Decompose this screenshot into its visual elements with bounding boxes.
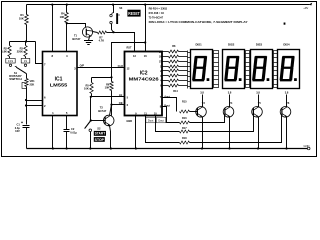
- svg-text:Dout: Dout: [158, 119, 164, 123]
- ground GND terminal: [304, 144, 310, 150]
- capacitor C1: [15, 121, 30, 133]
- node pin2 tap: [25, 104, 27, 106]
- wire T6 collector to display cathode: [286, 95, 288, 108]
- svg-text:STOP: STOP: [95, 138, 105, 142]
- wire left network top: [10, 41, 36, 43]
- wire R5 top to R6 line: [92, 77, 112, 79]
- svg-text:220K: 220K: [17, 50, 23, 54]
- node Vcc branch: [144, 41, 146, 43]
- wire pin10 to R17: [156, 116, 180, 132]
- svg-text:3,8: 3,8: [256, 91, 260, 95]
- wire T5 collector to display cathode: [258, 95, 260, 108]
- wire ground rail bottom: [27, 148, 308, 150]
- svg-text:MM74C926: MM74C926: [129, 76, 160, 81]
- node T3 emitter rail junction: [201, 147, 203, 149]
- wire S1 pole to VR1: [26, 74, 28, 79]
- svg-text:10K: 10K: [19, 17, 24, 21]
- wire pin9 to ground rail: [135, 116, 137, 149]
- wire IC1 pin8 to rail: [52, 5, 54, 52]
- svg-text:3.3µ: 3.3µ: [15, 126, 21, 130]
- wire R4 junction to T1 base: [67, 24, 86, 28]
- transistor T6: [280, 101, 291, 117]
- note component values text block: [149, 6, 248, 24]
- node R1 bottom: [25, 40, 27, 42]
- resistor R1: [19, 5, 28, 25]
- svg-text:10K: 10K: [105, 86, 110, 90]
- wire top +9V supply rail: [27, 4, 310, 6]
- transistor T4: [223, 101, 234, 117]
- resistor R17: [180, 127, 190, 133]
- node S2 rail junction: [89, 147, 91, 149]
- svg-text:10K: 10K: [60, 15, 65, 19]
- wire T1 collector to R7: [93, 32, 98, 33]
- transistor T2: [98, 106, 114, 126]
- label RESET: [127, 10, 140, 17]
- svg-text:R17: R17: [182, 127, 187, 130]
- wire T2 emitter to rail: [110, 126, 111, 149]
- svg-text:S2: S2: [97, 127, 101, 131]
- svg-text:R6: R6: [106, 82, 110, 86]
- svg-text:OE: OE: [119, 101, 123, 105]
- wire R7 to reset node: [107, 32, 114, 34]
- switch S3 reset pushbutton: [110, 5, 123, 33]
- display DIS3 LT543: [251, 50, 273, 89]
- wire to IC1 pin2: [27, 105, 43, 107]
- svg-text:O/P: O/P: [80, 64, 85, 68]
- ground T1 emitter: [84, 37, 93, 45]
- label START: [94, 131, 106, 136]
- wire to IC1 pin6: [27, 100, 43, 102]
- wire base feed T4: [190, 116, 225, 123]
- wire base feed T6: [190, 116, 282, 143]
- svg-text:T3-T6=BC547: T3-T6=BC547: [149, 15, 164, 19]
- transistor T1: [72, 27, 92, 41]
- wire IC1 pin3 O/P to IC2 CLK: [78, 67, 125, 69]
- svg-text:1.8K: 1.8K: [1, 50, 7, 54]
- svg-text:R2: R2: [4, 46, 8, 50]
- node R4 bottom junction: [66, 22, 68, 24]
- resistor R3: [17, 42, 28, 59]
- resistor R15: [180, 100, 190, 113]
- node pin1 rail junction: [52, 147, 54, 149]
- svg-text:R18: R18: [182, 137, 187, 140]
- wire R1 bottom to left network: [26, 25, 28, 42]
- svg-text:R4: R4: [61, 12, 65, 16]
- switch S2 start/stop: [85, 121, 101, 149]
- resistor R5: [84, 78, 93, 97]
- node pin6 tap: [25, 99, 27, 101]
- wire LE to IC2 pin5: [91, 96, 125, 98]
- wire T5 emitter to rail: [258, 117, 260, 149]
- wire base feed T5: [190, 116, 254, 132]
- wire OE to IC2 pin6: [112, 104, 125, 106]
- svg-text:RESET: RESET: [128, 11, 140, 16]
- power +9V terminal: [303, 3, 312, 10]
- wire segment bus strip 1: [214, 51, 219, 88]
- svg-text:CLK: CLK: [118, 64, 124, 68]
- display DIS1 LT543: [191, 50, 213, 89]
- label Dout right: [156, 117, 165, 122]
- svg-text:DIS3: DIS3: [256, 43, 263, 47]
- wire Aout to R15: [163, 98, 177, 112]
- svg-text:1S: 1S: [24, 59, 27, 63]
- resistor R16: [180, 117, 190, 124]
- switch S1 rotary: [9, 64, 26, 81]
- svg-text:+9V: +9V: [303, 6, 308, 10]
- svg-text:R1: R1: [20, 13, 24, 17]
- svg-text:VR1: VR1: [30, 79, 36, 83]
- svg-text:IC1: IC1: [55, 77, 63, 83]
- svg-text:BC547: BC547: [72, 37, 81, 41]
- wire segment bus strip 2: [246, 51, 250, 88]
- wire base link: [91, 120, 106, 122]
- node top rail junction dots: [51, 4, 53, 6]
- svg-text:LE: LE: [119, 93, 123, 97]
- wire T2 collector: [110, 105, 112, 116]
- svg-text:C2: C2: [71, 127, 75, 131]
- svg-text:3,8: 3,8: [200, 91, 204, 95]
- wire Vcc rail to IC2 pin16: [145, 5, 147, 52]
- svg-text:DIS1-DIS4 = LT543 COMMON-CATHO: DIS1-DIS4 = LT543 COMMON-CATHODE, 7-SEGM…: [149, 20, 248, 24]
- svg-text:3,8: 3,8: [285, 91, 289, 95]
- wire segment bus strip 3: [274, 51, 278, 88]
- resistor R7: [98, 31, 107, 43]
- svg-text:R5: R5: [85, 83, 89, 87]
- resistor R2: [1, 42, 11, 59]
- wire T3 emitter to rail: [202, 117, 204, 149]
- label range box 0.1S: [6, 58, 15, 63]
- svg-text:4.7K: 4.7K: [99, 39, 105, 43]
- node T5 emitter rail junction: [257, 147, 259, 149]
- svg-text:Dout: Dout: [148, 119, 154, 123]
- wire T4 collector to display cathode: [229, 95, 231, 108]
- node T4 emitter rail junction: [228, 147, 230, 149]
- svg-text:0.01µ: 0.01µ: [70, 130, 77, 134]
- node reset junction: [112, 31, 114, 33]
- IC counter IC2 MM74C926 box: [125, 52, 163, 116]
- svg-text:DIS1: DIS1: [195, 43, 202, 47]
- svg-text:R16: R16: [182, 117, 187, 120]
- wire reset node to IC2 pin13: [114, 33, 135, 52]
- mark print fleck: [284, 23, 286, 25]
- node pin9 rail junction: [135, 147, 137, 149]
- display DIS4 LT543: [278, 50, 300, 89]
- wire to IC1 pin7: [36, 42, 43, 64]
- resistor network R8-R14 segment lines: [159, 50, 188, 87]
- wire Bout to R16: [163, 107, 180, 123]
- svg-text:0.1S: 0.1S: [8, 59, 14, 63]
- svg-text:R8-R14 = 330Ω: R8-R14 = 330Ω: [149, 6, 168, 10]
- wire pin11 to R18: [146, 116, 180, 143]
- border frame: [2, 2, 317, 157]
- svg-text:BC547: BC547: [98, 109, 107, 113]
- wire T4 emitter to rail: [229, 117, 231, 149]
- svg-text:10K: 10K: [84, 87, 89, 91]
- svg-text:SWITCH: SWITCH: [9, 77, 22, 81]
- node T6 emitter rail junction: [285, 147, 287, 149]
- wire VR1 to C1: [26, 87, 28, 125]
- wire IC1 pin1 to rail: [52, 116, 54, 149]
- svg-text:R15-R18 = 1K: R15-R18 = 1K: [149, 11, 165, 15]
- resistor R4: [60, 5, 69, 24]
- svg-text:GND: GND: [126, 119, 132, 123]
- resistor R6: [105, 82, 114, 91]
- transistor T3: [196, 101, 207, 117]
- capacitor C2: [64, 116, 78, 149]
- svg-text:LM555: LM555: [50, 83, 68, 89]
- potentiometer VR1: [22, 79, 35, 89]
- node T2 base S2 junction: [90, 119, 92, 121]
- svg-text:RST: RST: [127, 47, 132, 50]
- svg-text:3,8: 3,8: [228, 91, 232, 95]
- node OE tap: [110, 104, 112, 106]
- svg-text:C1: C1: [16, 122, 20, 126]
- wire C1 to ground rail: [26, 128, 28, 149]
- node R5 top junction: [110, 76, 112, 78]
- wire R6 to T2 collector: [111, 91, 113, 116]
- svg-text:START: START: [95, 132, 106, 136]
- wire segment bus: [188, 51, 191, 89]
- node C2 rail junction: [66, 147, 68, 149]
- label Dout pin10: [146, 117, 155, 122]
- transistor T5: [252, 101, 263, 117]
- display DIS2 LT543: [223, 50, 245, 89]
- node T2 emitter rail junction: [110, 147, 112, 149]
- svg-text:16V: 16V: [15, 129, 20, 133]
- svg-text:GND: GND: [304, 144, 310, 148]
- wire Vcc branch to R6: [112, 43, 146, 82]
- wire T3 collector to display cathode: [202, 95, 204, 108]
- svg-text:22K: 22K: [30, 83, 35, 87]
- wire R4 to IC1 pin4: [66, 24, 68, 52]
- svg-text:DIS2: DIS2: [228, 43, 235, 47]
- svg-text:R3: R3: [20, 46, 24, 50]
- IC op-amp IC1 LM555 box: [43, 52, 78, 116]
- svg-text:DIS4: DIS4: [283, 43, 290, 47]
- node R5 bottom LE junction: [90, 96, 92, 98]
- svg-text:R15: R15: [182, 100, 187, 103]
- wire base feed T3: [190, 111, 198, 113]
- label STOP: [94, 137, 105, 142]
- label range box 1S: [21, 58, 30, 63]
- resistor R18: [180, 137, 190, 144]
- wire T6 emitter to rail: [286, 117, 288, 149]
- svg-text:R14: R14: [173, 90, 178, 93]
- wire R5 bottom to T2 base: [90, 97, 92, 121]
